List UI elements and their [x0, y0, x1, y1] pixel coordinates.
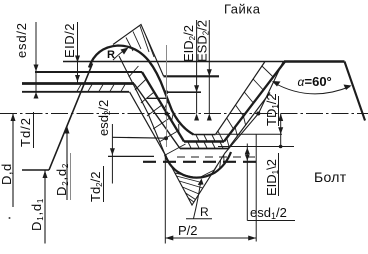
60deg arc: [274, 83, 351, 94]
svg-text:esd1/2: esd1/2: [250, 205, 287, 221]
esd/2 dim: [35, 22, 37, 97]
thick B-contour flank descending: [142, 72, 184, 142]
flat1 extension y134.3: [216, 133, 282, 135]
nominal major line A thin: [63, 61, 285, 63]
svg-text:TD1/2: TD1/2: [264, 93, 280, 126]
ESD2 limit line y76: [164, 75, 220, 77]
EID2/2 dim line: [196, 20, 198, 114]
line B: [35, 71, 142, 73]
hatch nested flats bands: [196, 135, 199, 141]
hatch root sliver right: [223, 155, 225, 164]
thick right flank T2 rising: [224, 62, 285, 142]
hatch right side T2-CR: [243, 116, 245, 125]
P/2 dim line: [165, 237, 256, 239]
thin limit line y156: [108, 155, 154, 157]
hatch between sharp flank and B flank: [129, 66, 139, 77]
left vertical D,d: [12, 114, 14, 208]
svg-text:Td/2: Td/2: [18, 117, 33, 147]
line C: [22, 82, 134, 85]
svg-text:EID1\2: EID1\2: [264, 159, 280, 196]
svg-text:D,d: D,d: [0, 163, 14, 185]
hatch band C-D left: [77, 85, 81, 92]
long thin line y146.5: [218, 146, 294, 148]
svg-text:R: R: [107, 49, 115, 61]
TD1/2 dim: [280, 114, 282, 147]
hatch sliver crest: [126, 38, 133, 52]
esd2/2 dim: [111, 124, 113, 184]
rounded nut-root arc R (thick bell) + tail: [89, 46, 194, 135]
line D: [22, 91, 129, 93]
hatch right side T1-T2: [262, 66, 273, 77]
R label crest leader: [113, 49, 126, 60]
hatch V tip below arc: [179, 181, 203, 188]
dashed thick line: [143, 161, 258, 163]
thin D-contour flank descending to arc spring: [130, 92, 166, 155]
root arc R thick: [165, 152, 231, 178]
limit line y98 short: [147, 97, 167, 99]
EID2 limit line y92: [167, 91, 202, 93]
D1,d1 vertical: [44, 171, 46, 244]
dashed thin line right part: [177, 156, 255, 158]
Td2/2 label underline: [103, 166, 105, 202]
crest flat thick right (nut root flat): [284, 60, 345, 63]
outer bell thin (tolerance sliver top): [113, 25, 164, 77]
svg-text:R: R: [200, 205, 209, 219]
svg-text:=60°: =60°: [305, 74, 332, 89]
svg-text:Гайка: Гайка: [224, 2, 261, 17]
svg-text:ESD2/2: ESD2/2: [195, 20, 211, 62]
ESD2/2 dim line: [208, 20, 210, 114]
far right flank descending: [345, 62, 366, 121]
flat3 left flank up: [134, 84, 180, 149]
svg-text:Болт: Болт: [314, 169, 347, 185]
sharp-V thin left flank: [119, 56, 283, 205]
esd1/2 dim + bracket: [246, 144, 248, 221]
flat3 right flank up: [228, 93, 270, 149]
svg-text:esd/2: esd/2: [14, 22, 29, 58]
hatch root sliver left: [167, 158, 171, 166]
gray extension x166.5: [166, 45, 168, 147]
D2,d2 vertical: [66, 126, 68, 200]
pitch centerline (dash-dot axis): [0, 113, 368, 115]
svg-text:EID/2: EID/2: [62, 23, 77, 58]
stray dot bottom left: [9, 217, 11, 219]
EID1/2 label underline: [278, 153, 280, 196]
EID/2 dim: [77, 22, 79, 83]
P/2 extension lines: [164, 155, 166, 244]
svg-text:P/2: P/2: [178, 223, 198, 238]
T1 thin right flank from flat1: [216, 62, 266, 135]
Td/2 underline: [33, 112, 35, 148]
R label root: underline + leader: [186, 218, 212, 220]
hatch between B flank and arc-tail: [164, 100, 168, 109]
flat1 thin inner: [194, 134, 216, 136]
thick root flat2: [184, 140, 224, 142]
bolt minor flat left: [22, 169, 49, 171]
svg-text:esd2/2: esd2/2: [96, 100, 112, 136]
flat3 med contour: [180, 148, 228, 150]
left flank of left tooth: [49, 64, 93, 171]
